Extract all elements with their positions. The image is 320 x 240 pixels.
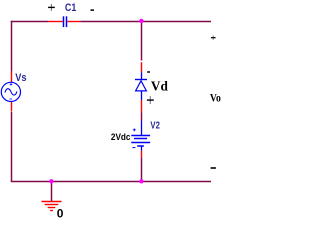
svg-text:0: 0 xyxy=(57,207,64,221)
svg-text:Vo: Vo xyxy=(210,90,221,104)
svg-text:Vs: Vs xyxy=(15,72,26,84)
svg-text:V2: V2 xyxy=(150,121,160,132)
svg-text:Vd: Vd xyxy=(151,79,168,94)
svg-text:2Vdc: 2Vdc xyxy=(111,132,131,142)
svg-text:C1: C1 xyxy=(65,2,76,14)
